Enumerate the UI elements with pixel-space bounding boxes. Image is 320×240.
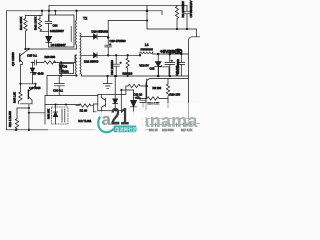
transformer secondary leads [81, 37, 93, 77]
riser Q4 collector [20, 84, 35, 92]
svg-text:R48 16K: R48 16K [47, 109, 51, 119]
capacitor C45 [178, 54, 185, 76]
ground symbol [103, 76, 112, 88]
ground rail y76 [81, 75, 188, 77]
svg-text:L4: L4 [145, 43, 149, 47]
resistor R3 [175, 5, 178, 29]
transformer aux bumps [75, 55, 76, 75]
svg-text:R26 100: R26 100 [123, 72, 133, 76]
svg-text:+: + [120, 61, 122, 65]
wire y118.5 right [146, 118, 196, 120]
resistor R46 [44, 61, 56, 64]
svg-text:C34 1000/10: C34 1000/10 [110, 60, 114, 75]
zener VD3 [155, 54, 162, 76]
capacitor C25 [34, 60, 36, 65]
svg-text:T2: T2 [83, 17, 87, 21]
wire +5VSB rail y54 [153, 52, 189, 54]
svg-text:+: + [171, 59, 173, 63]
rail B y10.8 [6, 11, 162, 15]
svg-text:R44 680K: R44 680K [19, 17, 23, 30]
svg-text:R42 100K: R42 100K [34, 17, 38, 30]
bus resistor tops [26, 11, 43, 16]
watermark white box [96, 112, 146, 135]
resistor R9 loop [159, 67, 170, 76]
opto transistor [101, 94, 105, 110]
watermark veil right [138, 103, 200, 134]
resistor R42 [38, 16, 48, 32]
svg-text:IC2 TL431: IC2 TL431 [78, 119, 91, 123]
svg-text:C30 0.1: C30 0.1 [53, 88, 63, 92]
svg-text:R12 4.7/0.5W: R12 4.7/0.5W [8, 111, 12, 127]
svg-text:D7 4148: D7 4148 [33, 71, 44, 75]
svg-text:C36 102: C36 102 [175, 65, 179, 75]
wire y95.6 [45, 95, 98, 97]
wire y103.8 [20, 104, 32, 130]
snubber box [49, 11, 75, 47]
riser x49 to C24 [48, 5, 50, 21]
frame left [5, 11, 7, 130]
resistor R26 [126, 55, 129, 76]
wire y112.8 [29, 112, 45, 114]
optocoupler box [98, 94, 122, 110]
transformer aux leads [76, 74, 78, 77]
watermark veil bottom-left [48, 125, 96, 136]
D8 box [60, 64, 74, 74]
capacitor C24 [45, 21, 52, 36]
resistor R12 [15, 119, 18, 130]
svg-text:0.01/1500V: 0.01/1500V [50, 29, 64, 33]
svg-text:R20 150: R20 150 [170, 92, 181, 96]
TL431 dashed box [52, 107, 69, 124]
riser L4 [139, 52, 141, 55]
rail A y5.3 [49, 4, 187, 6]
capacitor C5 [184, 5, 191, 29]
diode D20 [97, 21, 108, 40]
svg-text:D20 HER303: D20 HER303 [92, 30, 109, 34]
svg-text:C32: C32 [150, 67, 155, 71]
wire y20.5 [108, 20, 147, 22]
wire collector y49 [26, 48, 77, 50]
svg-text:+5VSB(紫): +5VSB(紫) [160, 48, 183, 55]
capacitor C29 [105, 37, 112, 56]
svg-text:D8: D8 [64, 64, 68, 68]
svg-text:C25 0.1: C25 0.1 [27, 54, 37, 58]
transformer primary leads [76, 11, 78, 49]
svg-text:FR102: FR102 [61, 70, 70, 74]
capacitor C30 [54, 76, 64, 96]
svg-text:D22 SB560: D22 SB560 [84, 59, 99, 63]
wire base branch y62.5 [31, 55, 77, 63]
inductor L4 core [140, 48, 153, 50]
svg-text:R45 1.2K: R45 1.2K [12, 92, 16, 103]
riser x147 [146, 5, 148, 29]
transformer T2 primary bumps [75, 20, 76, 45]
transistor Q3 [19, 54, 21, 62]
diode D10 [131, 90, 137, 115]
wire y108 [17, 108, 29, 119]
resistor R1 [76, 104, 98, 112]
resistor R45 [18, 92, 22, 104]
svg-text:C5 3300/10V: C5 3300/10V [189, 1, 193, 18]
svg-text:VD3 5V: VD3 5V [139, 63, 149, 67]
watermark teal swoosh [98, 117, 113, 133]
svg-text:R3 100K/2W: R3 100K/2W [181, 1, 185, 18]
capacitor C44 [165, 54, 175, 76]
frame bottom rail [6, 129, 150, 131]
riser TL431 x45 [44, 96, 46, 124]
svg-text:R46 560: R46 560 [45, 55, 56, 59]
transistor Q4 [27, 90, 29, 99]
rail y104.5 TL431 [45, 104, 79, 106]
capacitor C33 [140, 100, 146, 107]
rounded box output section [146, 37, 200, 124]
diode D6 [46, 41, 52, 44]
svg-text:C29 470/500: C29 470/500 [110, 39, 126, 43]
svg-text:anama: anama [140, 111, 199, 131]
transformer secondary bumps [80, 33, 81, 74]
svg-text:D6 HER967: D6 HER967 [51, 43, 66, 47]
capacitor C34 [113, 55, 119, 76]
svg-text:Q3 C3866: Q3 C3866 [11, 52, 15, 66]
svg-text:Q4 C945: Q4 C945 [29, 86, 41, 90]
resistor R20 [166, 79, 169, 99]
opto leads below [101, 111, 115, 116]
svg-text:+12: +12 [135, 96, 140, 100]
opto LED [113, 76, 118, 116]
TL431 symbol [53, 105, 58, 125]
diode D8 [59, 63, 63, 76]
terminal row ticks [150, 124, 192, 126]
snubber inner element [70, 27, 72, 42]
inductor L4 [141, 52, 153, 54]
svg-text:R1 36: R1 36 [80, 109, 88, 113]
svg-text:电源网社区: 电源网社区 [115, 126, 138, 133]
resistor R44 [24, 16, 27, 50]
rail y29 [147, 29, 197, 37]
watermark teal badge [114, 126, 137, 133]
resistor R24 [140, 97, 168, 108]
resistor R10 [121, 79, 146, 99]
diode D7 [30, 63, 34, 84]
diode D22 [97, 53, 140, 58]
wire y75.6 [47, 76, 77, 96]
wire opto top right [121, 90, 133, 94]
svg-text:R9 100: R9 100 [153, 86, 162, 90]
svg-text:C24: C24 [53, 24, 58, 28]
